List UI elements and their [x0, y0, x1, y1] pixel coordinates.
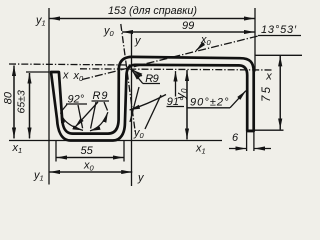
svg-text:65±3: 65±3 [16, 90, 28, 113]
svg-text:R9: R9 [145, 73, 159, 85]
svg-text:80: 80 [3, 91, 15, 104]
svg-text:6: 6 [232, 132, 239, 144]
svg-text:x0: x0 [200, 34, 212, 47]
svg-text:y0: y0 [133, 127, 145, 140]
svg-text:55: 55 [81, 145, 94, 157]
svg-text:99: 99 [182, 20, 194, 32]
svg-text:92°: 92° [68, 94, 85, 106]
svg-text:x1: x1 [195, 143, 206, 156]
svg-text:x0: x0 [73, 70, 85, 83]
svg-text:y: y [134, 35, 142, 47]
svg-text:R9: R9 [93, 90, 108, 102]
svg-text:y: y [137, 172, 145, 184]
svg-text:153 (для справки): 153 (для справки) [108, 5, 197, 17]
svg-text:13°53′: 13°53′ [261, 24, 297, 36]
svg-text:75: 75 [261, 86, 273, 102]
svg-text:y1: y1 [35, 15, 46, 28]
svg-text:90°±2°: 90°±2° [190, 97, 229, 109]
svg-text:x0: x0 [83, 160, 95, 173]
svg-text:x1: x1 [12, 142, 23, 155]
svg-text:y0: y0 [103, 25, 115, 38]
svg-text:x: x [265, 71, 272, 83]
svg-text:x: x [62, 69, 69, 81]
svg-text:y1: y1 [33, 169, 44, 182]
